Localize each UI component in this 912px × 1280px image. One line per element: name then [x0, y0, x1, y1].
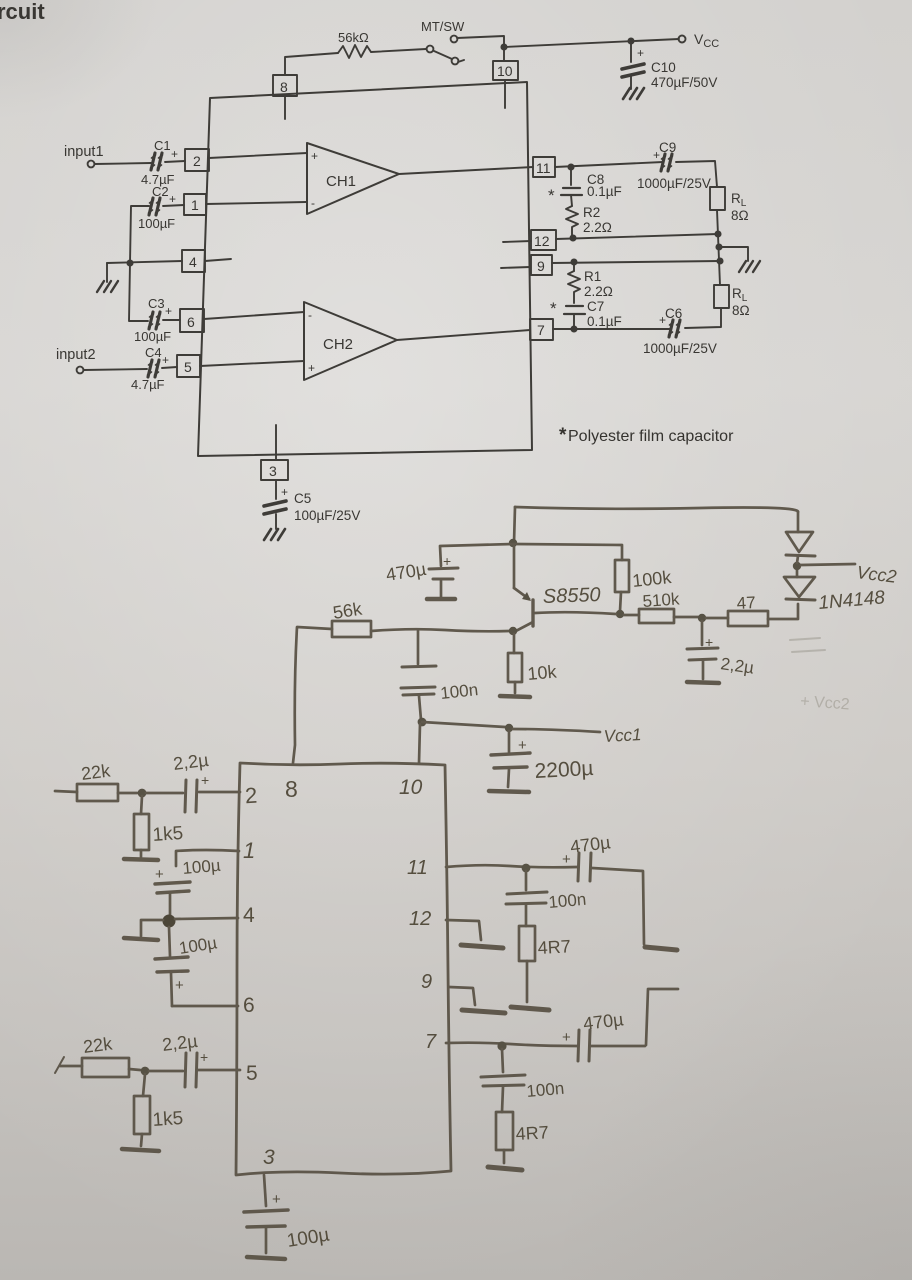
svg-text:+: + — [281, 485, 288, 499]
wire 22k left stub — [55, 791, 77, 792]
svg-text:+: + — [169, 192, 176, 206]
resistor R1 zigzag — [568, 271, 580, 303]
wire 56k right to collector node — [371, 629, 509, 631]
node 47 left — [698, 614, 706, 622]
pin box 1 — [184, 194, 206, 215]
wire C3 to pin6 — [163, 319, 180, 321]
svg-text:5: 5 — [246, 1062, 258, 1085]
ground left — [97, 281, 118, 292]
wire C5 to ground — [275, 514, 277, 529]
svg-text:100n: 100n — [548, 890, 587, 912]
switch MT/SW — [427, 36, 464, 65]
wire node to Vcc2 label — [801, 564, 855, 565]
svg-text:S8550: S8550 — [542, 584, 601, 608]
svg-text:100n: 100n — [526, 1079, 565, 1101]
svg-text:+: + — [171, 147, 178, 161]
svg-text:+: + — [200, 1049, 208, 1065]
wire node to 2.2u — [146, 792, 183, 795]
svg-text:10: 10 — [497, 63, 513, 79]
wire ground branch — [719, 247, 748, 261]
hand IC body — [236, 763, 451, 1175]
svg-text:Vcc1: Vcc1 — [603, 725, 642, 746]
wire 10k to ground — [514, 682, 517, 693]
node pin11 — [522, 864, 531, 873]
capacitor 100n first — [401, 631, 436, 720]
ground bar pin4 — [124, 938, 158, 940]
node emitter junction — [509, 539, 517, 547]
svg-text:+: + — [201, 772, 209, 788]
wire 22k bottom to node — [129, 1069, 140, 1070]
svg-text:-: - — [311, 196, 315, 210]
wire pin9 to bus — [552, 261, 720, 263]
svg-text:MT/SW: MT/SW — [421, 19, 465, 34]
svg-text:input1: input1 — [64, 144, 104, 160]
resistor R2 zigzag — [566, 206, 578, 238]
wire pin11 — [446, 865, 577, 867]
capacitor C1 — [151, 153, 163, 170]
svg-text:0.1µF: 0.1µF — [587, 314, 622, 329]
node C10 tap — [628, 38, 633, 43]
svg-text:+: + — [518, 737, 527, 754]
wire node to 2.2u bottom — [149, 1070, 183, 1073]
node Vcc2 — [793, 562, 801, 570]
node 1k5 bottom — [141, 1067, 150, 1076]
svg-text:+: + — [165, 304, 172, 318]
node pin12 bus — [715, 231, 720, 236]
svg-text:+: + — [653, 148, 660, 162]
wire 1k5 bottom to ground — [141, 1134, 142, 1146]
svg-text:*: * — [550, 299, 557, 318]
ground bar 10k — [500, 696, 530, 697]
wire D2 to node Vcc2 — [796, 569, 799, 577]
capacitor 470u top-left — [429, 568, 458, 579]
svg-text:8: 8 — [280, 79, 288, 95]
capacitor 470u ch1 — [578, 853, 591, 881]
svg-text:1: 1 — [191, 197, 199, 213]
node collector — [509, 627, 517, 635]
wire C8 down from node — [570, 167, 572, 185]
wire 4R7 ch2 to ground — [503, 1150, 506, 1163]
svg-text:22k: 22k — [82, 1033, 114, 1057]
ground bar 1k5 bottom — [122, 1149, 159, 1151]
diode D1 — [786, 512, 815, 563]
wire pin1 to CH1 minus — [206, 202, 306, 204]
svg-text:100µF: 100µF — [134, 329, 171, 344]
pin 9 inner stub — [501, 267, 530, 268]
resistor 4R7 ch2 — [496, 1112, 513, 1150]
wire 4R7 ch1 to ground — [526, 961, 529, 1002]
wire 470u ch1 to output — [592, 868, 644, 944]
svg-text:+: + — [308, 361, 315, 375]
wire CH2 out to pin7 — [397, 330, 530, 340]
wire 2.2u bottom to pin5 — [198, 1069, 240, 1072]
ground right — [739, 261, 760, 272]
svg-text:C3: C3 — [148, 296, 165, 311]
svg-text:4R7: 4R7 — [515, 1122, 549, 1144]
capacitor 2.2u right — [687, 621, 719, 683]
wire pin6 to CH2 minus — [204, 312, 304, 319]
wire input2 to C4 — [84, 369, 147, 370]
wire Vcc1 rail — [422, 722, 509, 728]
svg-text:10k: 10k — [527, 661, 559, 684]
svg-text:12: 12 — [534, 233, 550, 249]
wire C7 to pin7 wire — [573, 314, 575, 329]
wire C2 left down to node — [130, 206, 149, 263]
svg-text:12: 12 — [409, 908, 431, 930]
svg-text:+: + — [705, 634, 713, 650]
svg-text:1000µF/25V: 1000µF/25V — [643, 341, 717, 356]
wire node to VCC — [504, 39, 679, 47]
node left bus — [127, 260, 132, 265]
wire C4 to pin5 — [162, 367, 177, 368]
pin box 7 — [530, 319, 553, 340]
svg-text:2.2Ω: 2.2Ω — [584, 284, 613, 299]
wire pin7 — [446, 1043, 577, 1046]
svg-text:3: 3 — [263, 1146, 275, 1169]
pin box 4 — [182, 250, 205, 272]
svg-text:4.7µF: 4.7µF — [131, 377, 165, 392]
svg-text:C7: C7 — [587, 299, 604, 314]
pin 4 inner stub — [205, 259, 231, 261]
wire R1 from node — [573, 262, 575, 271]
svg-text:2200µ: 2200µ — [534, 757, 594, 783]
wire CH1 out to pin11 — [399, 167, 533, 174]
svg-text:+ Vcc2: + Vcc2 — [800, 693, 851, 713]
svg-text:2: 2 — [244, 783, 258, 809]
resistor RL1 — [710, 187, 725, 210]
wire pin9 to ground — [449, 987, 475, 1005]
svg-text:+: + — [562, 1029, 571, 1046]
wire pin8 to resistor 56k — [285, 53, 338, 75]
wire RL2 down to C6 — [685, 308, 721, 328]
capacitor 2.2u bottom-left — [185, 1053, 197, 1087]
wire pin11 to C9 — [555, 162, 663, 167]
node 2200u — [505, 724, 513, 732]
wire 100k to base node — [620, 592, 621, 611]
svg-text:7: 7 — [537, 322, 545, 338]
ground bar 4R7 ch1 — [511, 1007, 549, 1010]
capacitor C4 — [148, 360, 160, 377]
resistor 4R7 ch1 — [519, 926, 535, 961]
VCC terminal — [679, 36, 686, 43]
svg-text:input2: input2 — [56, 347, 96, 363]
wire 1k5 to ground — [140, 850, 143, 857]
svg-text:1k5: 1k5 — [152, 823, 184, 846]
node pin7 — [497, 1041, 506, 1050]
capacitor C9 — [661, 154, 673, 171]
wire pin12 to bus — [556, 234, 718, 239]
ground below C10 — [623, 88, 644, 99]
capacitor C2 — [149, 198, 161, 215]
wire 56k left to pin8 — [293, 627, 332, 763]
svg-text:11: 11 — [407, 857, 428, 879]
svg-text:1: 1 — [243, 838, 255, 863]
wire pin12 to ground — [446, 920, 481, 940]
pin 3 inner stub — [275, 425, 277, 460]
output bar ch1 — [645, 947, 677, 950]
node Vcc1 left — [418, 718, 427, 727]
svg-text:2: 2 — [193, 153, 201, 169]
wire 22k to node — [118, 792, 137, 795]
svg-text:3: 3 — [269, 463, 277, 479]
svg-text:9: 9 — [537, 258, 545, 274]
capacitor C8 — [561, 188, 582, 195]
wire blob to pin4 — [175, 918, 238, 919]
wire collector node to 10k — [513, 634, 516, 653]
svg-text:11: 11 — [536, 160, 551, 176]
wire 510k to node2 — [674, 616, 698, 619]
svg-text:C9: C9 — [659, 140, 676, 155]
svg-text:100µF: 100µF — [138, 216, 175, 231]
svg-text:100n: 100n — [439, 680, 479, 703]
svg-text:+: + — [562, 851, 571, 868]
pin 12 inner stub — [503, 241, 531, 242]
speaker stub ch2 — [646, 989, 678, 1045]
resistor 56k zigzag — [338, 45, 371, 58]
svg-text:9: 9 — [421, 971, 432, 993]
wire C2 to pin1 — [163, 205, 184, 206]
wire node to 1k5 bottom — [143, 1074, 145, 1096]
pin box 6 — [180, 309, 204, 332]
resistor 22k bottom — [82, 1058, 129, 1077]
node C7 tap — [571, 326, 576, 331]
capacitor C3 — [149, 312, 161, 329]
pin box 10 — [493, 61, 518, 80]
resistor 10k — [508, 653, 522, 682]
capacitor C7 — [564, 306, 585, 314]
svg-text:8Ω: 8Ω — [732, 303, 750, 318]
wire blob to ground left — [141, 920, 163, 936]
node junction at pin10 top — [501, 44, 506, 49]
node base — [616, 610, 624, 618]
wire C9 to RL1 — [676, 161, 717, 187]
faint erased marks — [790, 638, 850, 713]
svg-text:C4: C4 — [145, 345, 162, 360]
capacitor 470u ch2 — [578, 1030, 590, 1061]
svg-text:4R7: 4R7 — [537, 936, 571, 958]
svg-text:CH1: CH1 — [326, 173, 356, 190]
wire node2 to 47 — [706, 617, 728, 620]
svg-text:+: + — [175, 977, 184, 994]
node blob pin4 — [163, 915, 176, 928]
svg-text:10: 10 — [399, 776, 423, 799]
resistor 100k — [615, 560, 629, 592]
pin 10 inner stub — [504, 80, 506, 108]
svg-text:+: + — [272, 1191, 281, 1208]
svg-text:4: 4 — [243, 904, 255, 927]
svg-text:2,2µ: 2,2µ — [172, 750, 210, 774]
node R2 bottom — [570, 235, 575, 240]
svg-text:rcuit: rcuit — [0, 0, 45, 24]
node ground bus — [716, 244, 721, 249]
wire pin2 to CH1 plus — [209, 153, 307, 158]
wire C1 to pin2 — [165, 161, 185, 162]
wire node to Vcc1 label — [513, 729, 600, 732]
svg-text:4: 4 — [189, 254, 197, 270]
wire pin3 down to C5 — [275, 480, 277, 499]
svg-text:8: 8 — [285, 776, 298, 802]
wire node to 1k5 — [141, 796, 142, 814]
svg-text:2.2Ω: 2.2Ω — [583, 220, 612, 235]
ground bar pin9 — [462, 1010, 505, 1013]
ground bar pin12 — [461, 945, 503, 948]
capacitor 100u bottom — [244, 1210, 288, 1259]
resistor 510k — [639, 609, 674, 623]
resistor RL2 — [714, 285, 729, 308]
node 1k5 top — [138, 789, 147, 798]
wire node to 100k — [514, 544, 622, 560]
wire C10 to ground — [630, 75, 632, 89]
wire 2.2u to pin2 — [199, 791, 240, 794]
ground bar 1k5 top — [124, 859, 158, 860]
pin box 9 — [531, 255, 552, 275]
capacitor 100u first — [155, 882, 190, 915]
pin box 8 — [273, 75, 297, 96]
capacitor 2.2u top-left — [185, 780, 197, 812]
svg-text:8Ω: 8Ω — [731, 208, 749, 223]
wire cap to ground — [440, 581, 443, 597]
wire VCC node down to C10 — [630, 41, 632, 62]
svg-text:*: * — [548, 186, 555, 205]
svg-text:7: 7 — [425, 1031, 437, 1053]
wire pin10 stub — [419, 724, 420, 763]
wire node to 470u cap — [440, 544, 513, 566]
capacitor C5 — [264, 501, 286, 514]
svg-text:+: + — [162, 353, 169, 367]
pin box 2 — [185, 149, 209, 171]
svg-text:510k: 510k — [642, 589, 681, 611]
svg-text:1000µF/25V: 1000µF/25V — [637, 176, 711, 191]
svg-text:C6: C6 — [665, 306, 682, 321]
resistor 1k5 bottom — [134, 1096, 150, 1134]
svg-text:+: + — [637, 46, 644, 60]
tick mark left — [55, 1057, 64, 1073]
capacitor 2200u — [489, 731, 530, 792]
wire pin3 to 100u bottom — [264, 1175, 266, 1206]
svg-text:5: 5 — [184, 359, 192, 375]
input1 terminal — [88, 161, 95, 168]
capacitor 100n ch1 — [506, 871, 547, 926]
svg-text:+: + — [311, 149, 318, 163]
svg-text:+: + — [659, 313, 666, 327]
wire node to pin4 — [107, 261, 182, 263]
wire RL1 down right bus — [717, 210, 720, 285]
wire C8 to R2 — [571, 195, 572, 206]
svg-text:100k: 100k — [631, 567, 673, 591]
svg-text:6: 6 — [243, 994, 255, 1017]
svg-text:2,2µ: 2,2µ — [161, 1031, 199, 1055]
wire rail left corner down — [514, 507, 515, 543]
transistor Q1 S8550 — [514, 544, 616, 632]
capacitor C6 — [669, 320, 681, 337]
svg-text:+: + — [443, 553, 451, 569]
ground below C5 — [264, 529, 285, 540]
top rail wire — [515, 507, 798, 512]
svg-text:0.1µF: 0.1µF — [587, 184, 622, 199]
pin 8 inner stub — [284, 96, 286, 119]
node pin9 bus — [717, 258, 722, 263]
ground bar 470u — [427, 597, 455, 602]
wire 22k bottom left stub — [60, 1065, 82, 1068]
resistor 1k5 top — [134, 814, 149, 850]
svg-text:470µF/50V: 470µF/50V — [651, 75, 717, 90]
svg-text:100µ: 100µ — [182, 856, 222, 878]
ground bar 4R7 ch2 — [488, 1167, 522, 1170]
svg-text:C10: C10 — [651, 60, 676, 75]
input2 terminal — [77, 367, 84, 374]
svg-text:*: * — [559, 425, 567, 446]
diode D2 — [784, 577, 815, 600]
svg-text:C1: C1 — [154, 138, 171, 153]
svg-text:1k5: 1k5 — [152, 1108, 184, 1131]
capacitor 100u second — [155, 927, 188, 1006]
capacitor 100n ch2 — [481, 1049, 525, 1112]
pin box 11 — [533, 157, 555, 177]
svg-text:R2: R2 — [583, 205, 600, 220]
pin box 3 — [261, 460, 288, 480]
pin box 12 — [531, 230, 556, 250]
wire 100u second to pin6 — [172, 1005, 238, 1008]
wire down to ground left — [106, 263, 108, 282]
wire switch to pin10 — [457, 36, 504, 61]
wire pin5 to CH2 plus — [200, 361, 304, 366]
wire C6 to pin7 — [553, 328, 670, 330]
capacitor C10 — [622, 64, 644, 77]
svg-text:-: - — [308, 308, 312, 322]
pin box 5 — [177, 355, 200, 377]
resistor 47 — [728, 611, 768, 626]
svg-text:47: 47 — [736, 593, 756, 613]
svg-text:Polyester film capacitor: Polyester film capacitor — [568, 428, 734, 445]
svg-text:6: 6 — [187, 314, 195, 330]
svg-text:C5: C5 — [294, 491, 311, 506]
svg-text:R1: R1 — [584, 269, 601, 284]
wire node down to C3 — [129, 263, 148, 321]
op-amp CH2 — [304, 302, 397, 380]
IC body outline — [198, 82, 532, 456]
svg-text:100µF/25V: 100µF/25V — [294, 508, 360, 523]
op-amp CH1 — [307, 143, 399, 214]
wire 470u ch2 to stub — [591, 1045, 645, 1048]
resistor 56k hand — [332, 621, 371, 637]
svg-text:CH2: CH2 — [323, 336, 353, 353]
wire resistor to switch — [371, 49, 426, 52]
wire pin1 to 100u — [176, 850, 239, 866]
node C8 tap — [568, 164, 573, 169]
svg-text:C2: C2 — [152, 184, 169, 199]
wire input1 to C1 — [95, 163, 151, 164]
svg-text:22k: 22k — [80, 760, 112, 784]
resistor 22k top — [77, 784, 118, 801]
node R1 top — [571, 259, 576, 264]
wire 47 to diode bottom — [768, 604, 798, 619]
svg-text:+: + — [155, 866, 164, 883]
wire base node to 510k — [624, 614, 639, 617]
svg-text:56kΩ: 56kΩ — [338, 30, 369, 45]
